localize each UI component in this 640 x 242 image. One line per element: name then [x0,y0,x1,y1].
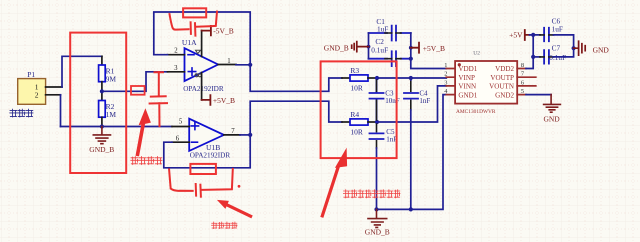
pin 1 output stub [218,64,236,66]
svg-text:VDD1: VDD1 [458,65,477,73]
P1 pin 1 stub [46,86,62,88]
wire +5V_B rail to U2 pin1 [411,59,447,69]
power port -5V_B [202,26,211,36]
node rail C5 [374,207,378,211]
annotation arrow output filter [322,166,338,216]
svg-text:U2: U2 [473,51,480,57]
power port +5V_B right of C2 [411,43,419,53]
pin 3 stub [168,71,185,73]
wire U2 pin5 to GND [526,94,551,96]
annotation small red box on input wire [131,86,145,95]
svg-text:2: 2 [444,71,447,78]
pin 6 stub [172,141,189,143]
svg-text:OPA2192IDR: OPA2192IDR [183,85,224,93]
resistor R1 [101,56,103,65]
node +5V_B stub [409,46,413,50]
svg-text:OPA2192IDR: OPA2192IDR [190,152,231,160]
P1 pin 2 stub [46,94,61,96]
svg-text:GND: GND [543,114,560,123]
ground GND under U2 pin5 [544,95,561,113]
power port GND sideways [574,41,586,55]
svg-text:GND_B: GND_B [89,145,114,154]
wire P1.1 to R1 top [62,56,102,87]
resistor R3 [342,77,350,79]
wire U1B out to R4 [250,101,342,135]
svg-text:VDD2: VDD2 [495,65,514,73]
svg-text:GND_B: GND_B [365,227,390,236]
node ground junction under R2 [100,124,104,128]
ground GND_B bottom [368,209,387,227]
label 反馈滤波 [212,222,238,229]
node rail C4 [409,207,413,211]
annotation arrow input lowpass [138,123,144,154]
svg-text:1: 1 [227,58,230,65]
label 信号源 [10,109,33,117]
svg-text:7: 7 [231,128,235,135]
resistor R4 [342,121,350,123]
svg-text:U1A: U1A [182,38,197,47]
capacitor C4 [409,76,413,80]
node GND stub right [572,46,576,50]
U2 right pin stubs 8-5 [517,69,536,95]
svg-text:3: 3 [444,79,447,86]
wire R3 to U2 pin2 [377,77,446,79]
svg-text:1: 1 [444,62,447,69]
svg-text:1uF: 1uF [377,25,388,34]
pin 7 output stub [224,134,240,136]
annotation red box output filter section [321,61,397,158]
svg-text:10R: 10R [350,127,363,136]
U1A V+ pin [201,73,203,100]
node +5V C6 [531,33,535,37]
annotation red box on U1A feedback [183,8,206,17]
svg-text:VINP: VINP [458,74,475,82]
node GND_B stub [367,45,371,49]
IC U2 AMC1301DWVR [455,61,517,104]
wire U1A feedback loop [154,12,250,65]
wire C1/C2 right vertical [410,33,412,59]
wire U1B feedback loop [164,135,250,168]
node R3 output junction [375,76,379,80]
wire R4 to U2 pin3 [377,86,446,122]
op-amp U1A [185,48,219,81]
node C2 right [409,57,413,61]
annotation red box input section [70,33,126,173]
svg-text:P1: P1 [27,70,35,79]
svg-text:0.1uF: 0.1uF [371,46,388,55]
svg-text:1nF: 1nF [419,97,430,105]
svg-text:9M: 9M [106,74,117,83]
svg-text:GND2: GND2 [495,91,514,99]
svg-text:GND_B: GND_B [324,43,349,52]
svg-text:6: 6 [176,136,180,143]
node U1B output junction [248,133,252,137]
svg-text:5: 5 [179,118,183,125]
capacitor C6 [544,28,549,41]
wire junction to U1A pin3 [102,72,168,92]
wire C6/C7 right vertical [554,35,574,57]
svg-text:R4: R4 [350,110,359,119]
node R4 output junction [375,120,379,124]
svg-text:8: 8 [521,62,524,69]
annotation arrow feedback filter [228,205,251,216]
svg-text:VOUTN: VOUTN [489,83,514,91]
label 输出设置低通滤波 [343,190,400,198]
wire analog ground rail [377,95,447,210]
capacitor C3 [370,78,384,122]
node C7 left [531,55,535,59]
pin 4 tiny number [196,50,201,53]
pin 2 stub [168,54,185,56]
wire U1A output [236,64,250,66]
svg-text:C7: C7 [552,44,561,53]
svg-text:+5V: +5V [509,31,523,40]
svg-text:3: 3 [174,65,178,72]
ground GND_B under R2 [93,127,110,144]
pin 8 tiny number [195,74,198,77]
annotation hand-drawn capacitor on U1A feedback [170,12,218,36]
svg-text:AMC1301DWVR: AMC1301DWVR [456,109,496,115]
annotation red box on U1B feedback [190,164,216,174]
node R1/R2 junction [100,89,104,93]
node U1A output junction [248,63,252,67]
wire ground row to U1B pin5 [61,126,173,128]
annotation hand-drawn capacitor at input [150,72,167,126]
capacitor C1 [369,26,411,41]
svg-text:2: 2 [35,91,39,100]
svg-text:VINN: VINN [458,83,476,91]
svg-text:6: 6 [521,79,524,86]
resistor R2 [99,101,106,118]
connector P1 [18,79,46,105]
wire +5V to C6/C7/pin8 [526,35,540,69]
svg-text:10nF: 10nF [385,97,400,105]
wire P1.2 down to ground row [60,95,62,127]
svg-text:10R: 10R [350,83,363,92]
svg-text:1M: 1M [106,110,117,119]
wire U1A out to R3 [250,65,342,92]
capacitor C5 [370,133,384,139]
svg-text:+5V_B: +5V_B [423,44,445,53]
U1A V- pin [201,31,203,57]
svg-text:C5: C5 [386,128,395,136]
svg-text:-5V_B: -5V_B [213,27,233,36]
annotation hand-drawn capacitor on U1B feedback [169,169,233,197]
wire C1/C2 left vertical [368,33,370,59]
svg-text:2: 2 [174,48,178,55]
svg-text:R3: R3 [350,66,359,75]
svg-text:U1B: U1B [206,143,220,152]
svg-text:VOUTP: VOUTP [490,74,514,82]
svg-text:GND: GND [593,45,610,54]
svg-text:5: 5 [521,88,524,95]
wire U1B output [240,134,250,136]
label 输入低通 [131,157,162,165]
capacitor C7 [544,50,549,63]
svg-text:+5V_B: +5V_B [213,96,235,105]
svg-text:GND1: GND1 [458,91,477,99]
svg-text:1uF: 1uF [552,25,563,34]
U2 pin names [458,65,514,99]
wire C7 left lead [533,56,540,58]
power port +5V_B [202,95,211,105]
U2 left pin stubs 1-4 [446,69,455,95]
op-amp U1B [189,119,224,151]
power port GND_B left of C1 [352,42,369,52]
pin 5 stub [172,126,189,128]
capacitor C2 [369,51,411,66]
